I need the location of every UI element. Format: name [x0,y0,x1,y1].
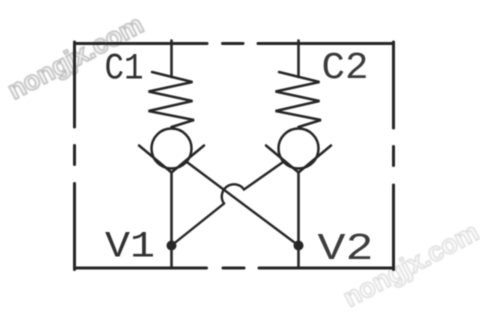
svg-text:V1: V1 [105,227,155,269]
svg-text:C1: C1 [105,49,144,91]
check valve ball (left) [152,129,192,169]
enclosure dashed box : top side [75,42,394,45]
enclosure dashed box : left side [73,42,76,270]
enclosure dashed box : right side [392,42,395,270]
spring (right check valve) [276,72,322,127]
valve seat V (left) [139,146,204,173]
svg-text:C2: C2 [322,47,369,90]
wire: left seat to V1 port [170,173,173,269]
wire: C2 branch upper vertical [297,41,300,78]
check valve ball (right) [279,129,319,169]
svg-text:V2: V2 [318,228,374,271]
enclosure dashed box : bottom side [75,267,394,270]
wire: right seat to V2 port [297,173,300,269]
pilot line right valve to V1 node (with crossover hop) [172,161,285,246]
wire: C1 branch upper vertical [170,41,173,78]
junction node V2 [294,241,304,251]
valve seat V (right) [266,146,331,173]
spring (left check valve) [149,72,195,127]
junction node V1 [167,241,177,251]
pilot line left valve to V2 node [186,161,299,246]
